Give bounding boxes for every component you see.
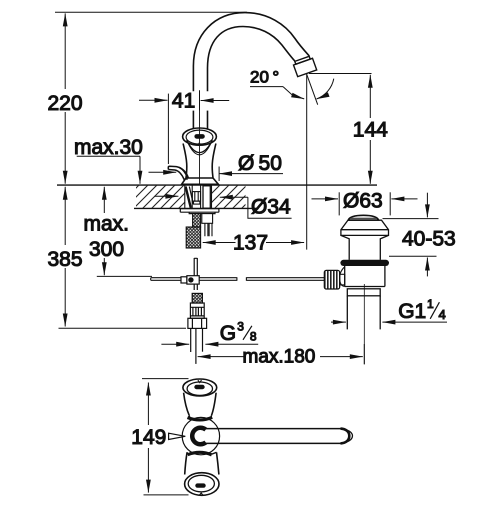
pop-up waste vertical rod — [181, 258, 199, 290]
mounting shank through countertop — [185, 185, 212, 209]
horizontal pop-up rod — [151, 277, 325, 281]
svg-text:G: G — [220, 322, 236, 345]
handle crown front view — [183, 128, 217, 155]
svg-text:max.30: max.30 — [74, 136, 143, 159]
drain centre line — [363, 284, 365, 364]
svg-text:max.: max. — [84, 213, 130, 236]
countertop hatched section — [57, 185, 377, 208]
dimension 41 — [139, 90, 229, 164]
plan view: spout bearing boss — [182, 415, 219, 455]
tailpipe G1 1/4 — [347, 296, 380, 330]
plan view: top cross handle — [183, 379, 217, 416]
svg-text:385: 385 — [47, 248, 82, 271]
dimension 220 — [55, 12, 247, 184]
plan view: spout tube — [205, 429, 353, 444]
dimension 149 — [142, 379, 189, 495]
svg-text:220: 220 — [47, 92, 82, 115]
plan view: bottom cross handle — [185, 452, 219, 495]
flange — [341, 220, 389, 235]
second supply connection — [202, 214, 213, 224]
20 degree slant line — [307, 74, 318, 104]
handle recess lower arcs — [187, 140, 213, 152]
red/blue indicator dot — [194, 134, 204, 139]
svg-text:Ø63: Ø63 — [343, 190, 383, 213]
upper body — [341, 235, 389, 260]
svg-text:1: 1 — [427, 297, 434, 311]
countertop top surface line — [57, 184, 377, 186]
svg-text:41: 41 — [172, 90, 195, 113]
dimension 137 — [203, 242, 304, 244]
svg-text:40-53: 40-53 — [402, 227, 456, 250]
svg-text:4: 4 — [439, 307, 446, 322]
svg-text:149: 149 — [131, 426, 166, 449]
braided supply hose — [186, 214, 212, 248]
svg-text:300: 300 — [89, 238, 124, 261]
collar — [347, 289, 380, 296]
dimension 144 — [309, 74, 372, 184]
lower body — [345, 266, 385, 287]
dome cap — [348, 215, 378, 220]
pop-up waste drain assembly — [324, 215, 389, 364]
supply pipe tails — [190, 328, 192, 352]
side lever handle — [168, 166, 188, 180]
svg-text:3: 3 — [237, 319, 244, 333]
svg-text:max.180: max.180 — [243, 347, 316, 368]
faucet spout gooseneck — [193, 13, 309, 129]
svg-text:8: 8 — [250, 329, 257, 343]
leader open arrow to plan body — [169, 433, 186, 439]
vertical reference line from spout tip — [306, 74, 308, 249]
svg-text:20 °: 20 ° — [250, 68, 279, 87]
svg-text:G1: G1 — [398, 300, 426, 323]
base skirt — [186, 177, 213, 179]
spout aerator tip — [294, 56, 317, 76]
svg-text:144: 144 — [353, 119, 388, 142]
mounting washer under counter — [180, 209, 219, 214]
rod cross block — [187, 276, 199, 284]
faucet body front view — [182, 144, 219, 185]
svg-text:Ø 50: Ø 50 — [238, 152, 282, 175]
O-ring seal — [340, 260, 389, 266]
angle arc — [317, 79, 334, 99]
svg-text:Ø34: Ø34 — [251, 196, 291, 219]
actuator knob — [340, 274, 345, 285]
faucet centre line — [199, 94, 201, 185]
countertop bottom line — [134, 207, 259, 209]
svg-text:137: 137 — [233, 232, 268, 255]
G3/8 hose end fittings — [188, 293, 207, 364]
